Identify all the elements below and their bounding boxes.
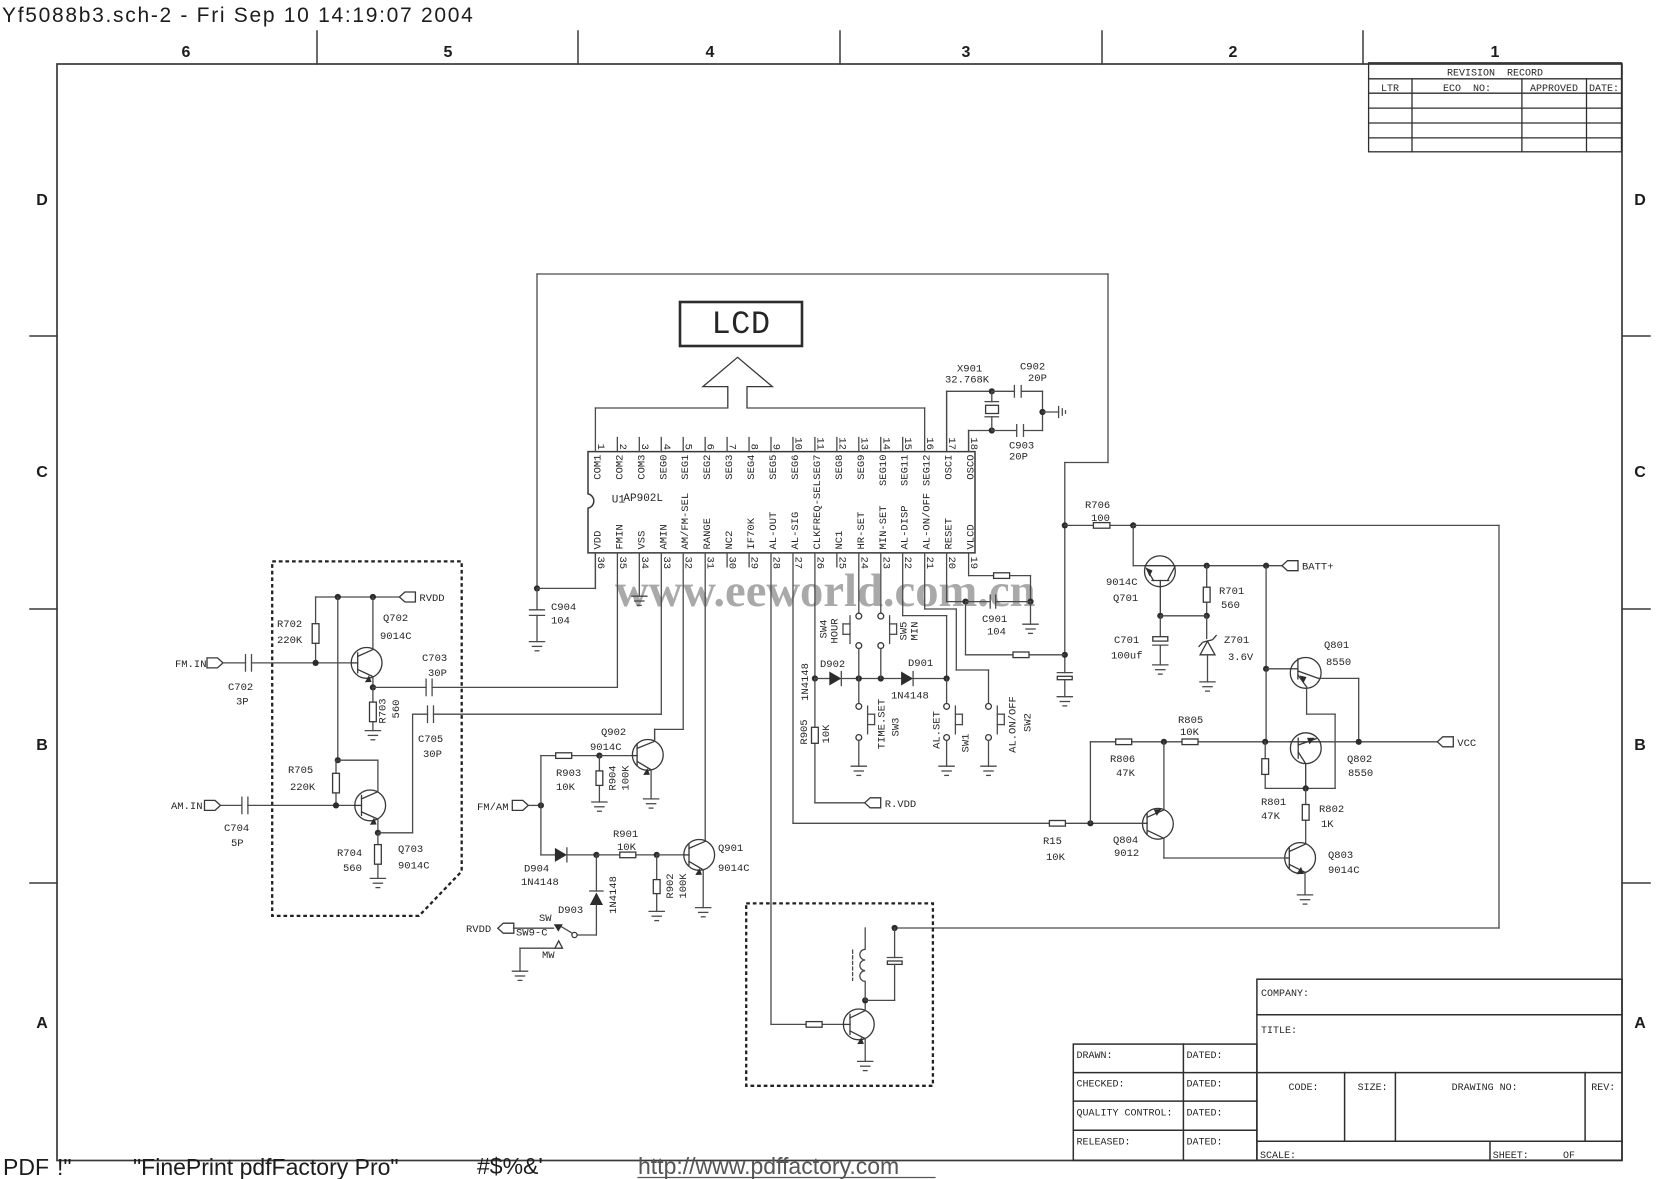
wire sw1 bottom <box>946 740 948 766</box>
capacitor C902 <box>1014 386 1021 398</box>
svg-text:2: 2 <box>1229 44 1238 61</box>
resistor R902 <box>653 880 660 894</box>
svg-text:R705: R705 <box>288 765 313 777</box>
U1 pin 17 (OSCI) <box>944 391 958 479</box>
resistor R706 <box>1093 523 1110 529</box>
wire R905 <box>815 679 865 803</box>
svg-text:1N4148: 1N4148 <box>800 663 812 701</box>
svg-text:5P: 5P <box>231 838 244 850</box>
svg-text:R701: R701 <box>1219 586 1244 598</box>
svg-text:Q803: Q803 <box>1328 850 1353 862</box>
svg-text:www.eeworld.com.cn: www.eeworld.com.cn <box>615 565 1036 617</box>
svg-text:9014C: 9014C <box>380 631 412 643</box>
U1 pin 5 (SEG1) <box>680 438 694 480</box>
U1 pin 19 (VLCD) <box>966 524 980 569</box>
LCD arrow <box>703 357 772 408</box>
svg-text:DATED:: DATED: <box>1187 1080 1223 1091</box>
wire Q701 to BATT+ <box>1175 565 1282 567</box>
svg-text:"FinePrint pdfFactory Pro": "FinePrint pdfFactory Pro" <box>133 1154 399 1179</box>
svg-text:SW: SW <box>539 913 552 925</box>
wire LCD bus to pins 1 and 16 <box>595 407 924 409</box>
U1 pin 10 (SEG6) <box>790 437 804 479</box>
wire Q804 collector down <box>1163 838 1165 858</box>
switch SW5 actuator <box>890 616 897 644</box>
svg-text:220K: 220K <box>290 782 316 794</box>
svg-text:C704: C704 <box>224 823 249 835</box>
svg-text:FM.IN: FM.IN <box>175 659 207 671</box>
svg-text:VCC: VCC <box>1457 738 1476 750</box>
capacitor C704 <box>242 797 248 813</box>
node Q801 base <box>1263 666 1269 672</box>
svg-text:9014C: 9014C <box>398 861 430 873</box>
U1 pin 34 (VSS) <box>636 531 650 570</box>
wire coil bottom <box>864 981 866 1000</box>
svg-text:SW9-C: SW9-C <box>516 928 548 940</box>
svg-text:100K: 100K <box>621 765 633 791</box>
svg-text:R801: R801 <box>1261 797 1286 809</box>
switch SW5 contact top <box>878 613 884 619</box>
port R.VDD <box>865 798 881 808</box>
U1 pin 25 (NC1) <box>834 531 848 570</box>
svg-text:TIME.SET: TIME.SET <box>877 699 889 749</box>
svg-text:VDD: VDD <box>592 531 604 550</box>
port RVDD bottom <box>498 923 514 933</box>
svg-text:C902: C902 <box>1020 362 1045 374</box>
switch SW5 contact bottom <box>878 643 884 649</box>
svg-text:SEG3: SEG3 <box>724 455 736 480</box>
wire AM.IN to C704 <box>221 804 242 806</box>
svg-text:SEG6: SEG6 <box>790 455 802 480</box>
wire batt node down to Q701 <box>1133 525 1144 565</box>
resistor R701 <box>1203 587 1210 602</box>
wire crystal to C902 <box>992 391 1043 430</box>
svg-text:16: 16 <box>923 437 935 450</box>
resistor osc base <box>806 1022 822 1028</box>
svg-text:SEG2: SEG2 <box>702 455 714 480</box>
svg-text:10K: 10K <box>1180 727 1200 739</box>
switch SW1 contact top <box>944 704 950 710</box>
svg-text:D903: D903 <box>558 905 583 917</box>
wire pin28 into osc base <box>771 1023 845 1025</box>
node batt rail corner <box>1130 522 1136 528</box>
wire Q801 emitter jog <box>1306 687 1335 789</box>
wire Q902 collector <box>654 729 656 741</box>
node C901 left <box>962 599 968 605</box>
svg-text:R902: R902 <box>665 873 677 898</box>
zener Z701 <box>1199 635 1217 682</box>
U1 pin 27 (AL-SIG) <box>790 512 804 569</box>
transistor Q804 <box>1143 808 1174 839</box>
crystal X901 <box>985 391 998 430</box>
svg-text:MIN: MIN <box>910 622 922 641</box>
switch SW2 contact bottom <box>986 735 992 741</box>
svg-text:COMPANY:: COMPANY: <box>1261 989 1309 1000</box>
node Q901 base <box>654 852 660 858</box>
U1 pin 14 (SEG10) <box>878 437 892 486</box>
transistor Q902 <box>632 740 663 776</box>
node diode bus left <box>812 675 818 681</box>
svg-text:1: 1 <box>594 444 606 450</box>
svg-text:AMIN: AMIN <box>658 524 670 549</box>
wire pin18 OSCO to crystal <box>969 431 992 452</box>
U1 pin 11 (SEG7) <box>812 437 826 479</box>
wire FM/AM up to R903 <box>541 756 600 806</box>
svg-text:AL-ON/OFF: AL-ON/OFF <box>922 493 934 550</box>
svg-text:C702: C702 <box>228 682 253 694</box>
wire Z701 top <box>1206 616 1208 639</box>
svg-text:12: 12 <box>835 437 847 450</box>
switch SW3 contact bottom <box>856 735 862 741</box>
svg-text:CLKFREQ-SEL: CLKFREQ-SEL <box>812 480 824 549</box>
svg-text:6: 6 <box>182 44 191 61</box>
svg-text:13: 13 <box>857 437 869 450</box>
wire Q902 emitter <box>650 770 652 799</box>
wire pin33 AMIN down <box>660 553 662 714</box>
svg-text:RANGE: RANGE <box>702 518 714 550</box>
svg-text:DATE:: DATE: <box>1589 84 1619 95</box>
svg-text:REVISION RECORD: REVISION RECORD <box>1447 69 1543 80</box>
wire Q803 emitter <box>1304 872 1306 895</box>
svg-text:1N4148: 1N4148 <box>521 877 559 889</box>
title block signoff table <box>1073 1044 1257 1160</box>
node R702 bottom <box>313 660 319 666</box>
capacitor C904 <box>530 588 545 641</box>
svg-text:RVDD: RVDD <box>419 593 444 605</box>
wire bias node <box>1160 615 1206 617</box>
resistor VLCD series <box>994 573 1010 579</box>
svg-text:D: D <box>1634 192 1646 209</box>
U1 pin 15 (SEG11) <box>900 437 914 486</box>
svg-text:R904: R904 <box>608 765 620 790</box>
U1 pin 24 (HR-SET) <box>856 512 870 569</box>
svg-text:R806: R806 <box>1110 754 1135 766</box>
svg-text:5: 5 <box>682 444 694 450</box>
ground R902 <box>649 911 664 920</box>
wire pin17 OSCI to crystal <box>947 391 992 451</box>
wire osc cap <box>865 928 894 1000</box>
U1 pin 29 (IF70K) <box>746 517 760 569</box>
svg-text:DATED:: DATED: <box>1187 1138 1223 1149</box>
wire pin20 RESET <box>947 553 966 602</box>
svg-text:Q801: Q801 <box>1324 640 1349 652</box>
ground R703 <box>365 731 380 740</box>
U1 pin 35 (FMIN) <box>614 524 628 569</box>
svg-text:Z701: Z701 <box>1224 635 1249 647</box>
switch SW9-C wiper pivot <box>572 932 577 937</box>
wire FM.IN to C702 <box>223 662 246 664</box>
wire C701 bottom <box>1159 646 1161 665</box>
revision record table <box>1369 63 1622 152</box>
svg-text:D902: D902 <box>820 659 845 671</box>
svg-text:SIZE:: SIZE: <box>1358 1083 1388 1094</box>
node sw1 tap <box>944 675 950 681</box>
svg-text:R703: R703 <box>378 698 390 723</box>
ground Q902 <box>644 799 659 808</box>
ground SW3 <box>851 766 866 775</box>
svg-text:32.768K: 32.768K <box>945 375 990 387</box>
LCD block <box>680 302 802 346</box>
transistor Q801 <box>1290 658 1321 689</box>
svg-text:1K: 1K <box>1321 819 1334 831</box>
ground osc <box>858 1061 873 1070</box>
svg-text:NC2: NC2 <box>724 531 736 550</box>
wire C701 top <box>1159 616 1161 637</box>
svg-text:B: B <box>1634 737 1646 754</box>
wire VCC row <box>1090 741 1437 743</box>
svg-text:9: 9 <box>770 444 782 450</box>
svg-text:47K: 47K <box>1116 768 1136 780</box>
wire sw3 top <box>858 679 860 704</box>
svg-text:FMIN: FMIN <box>614 524 626 549</box>
svg-text:30P: 30P <box>423 749 442 761</box>
svg-text:CODE:: CODE: <box>1289 1083 1319 1094</box>
ground R704 <box>370 878 385 887</box>
wire sw5 bottom <box>880 649 882 679</box>
resistor R705 <box>333 773 340 793</box>
switch SW9-C blade <box>554 924 573 933</box>
dashed block FM/AM amp <box>272 561 462 916</box>
capacitor C705 <box>428 706 434 722</box>
svg-text:RELEASED:: RELEASED: <box>1077 1138 1131 1149</box>
wire sw3 bottom <box>858 740 860 766</box>
svg-text:NC1: NC1 <box>834 531 846 550</box>
wire R15 node up to R806 <box>1089 742 1091 824</box>
ground R904 <box>592 802 607 811</box>
svg-text:A: A <box>36 1015 48 1032</box>
svg-text:PDF: PDF <box>3 1154 49 1179</box>
svg-text:FM/AM: FM/AM <box>477 802 509 814</box>
svg-text:B: B <box>36 737 48 754</box>
svg-text:SCALE:: SCALE: <box>1260 1151 1296 1162</box>
svg-text:9014C: 9014C <box>1328 865 1360 877</box>
svg-text:COM2: COM2 <box>614 455 626 480</box>
U1 pin 8 (SEG4) <box>746 438 760 480</box>
wire R904 <box>598 756 600 802</box>
U1 pin 28 (AL-OUT) <box>768 512 782 569</box>
svg-text:SEG4: SEG4 <box>746 455 758 480</box>
transistor osc Q <box>843 1009 874 1044</box>
transistor Q802 <box>1290 733 1321 789</box>
wire crystal to C903 <box>992 430 1043 432</box>
svg-text:560: 560 <box>391 700 403 719</box>
svg-text:4: 4 <box>706 44 715 61</box>
svg-text:3: 3 <box>638 444 650 450</box>
svg-text:COM3: COM3 <box>636 455 648 480</box>
svg-text:C904: C904 <box>551 602 576 614</box>
U1 pin 33 (AMIN) <box>658 524 672 569</box>
svg-text:ECO NO:: ECO NO: <box>1443 84 1491 95</box>
svg-text:3.6V: 3.6V <box>1228 652 1254 664</box>
wire pin29 IF70K stub <box>748 553 750 567</box>
wire AM out to C705 <box>378 714 428 833</box>
svg-text:RVDD: RVDD <box>466 924 491 936</box>
svg-text:AL-SIG: AL-SIG <box>790 512 802 550</box>
ground C904 <box>529 642 544 651</box>
wire pin23 MIN-SET down <box>880 553 882 613</box>
wire Q801 base <box>1266 668 1292 670</box>
ground Q901 <box>696 908 711 917</box>
ground C901 <box>1023 624 1038 633</box>
wire R802 <box>1305 788 1307 845</box>
switch SW3 actuator <box>868 706 875 734</box>
wire VDD rail loop <box>537 274 1108 673</box>
wire pin27 AL-SIG down <box>792 553 794 823</box>
wire osc emitter <box>864 1039 866 1062</box>
svg-text:AL.SET: AL.SET <box>932 711 944 749</box>
svg-text:D904: D904 <box>524 864 549 876</box>
wire Q703 emitter <box>377 819 379 833</box>
resistor R704 <box>375 845 382 865</box>
node sw3 tap <box>856 675 862 681</box>
wire battery rail right side <box>895 525 1499 928</box>
svg-text:APPROVED: APPROVED <box>1530 84 1578 95</box>
svg-text:4: 4 <box>660 444 672 450</box>
wire pin21 AL-ON/OFF jog <box>925 553 989 704</box>
wire Q902 base <box>599 755 637 757</box>
svg-text:5: 5 <box>444 44 453 61</box>
wire sw4 bottom <box>858 649 860 679</box>
switch SW4 actuator <box>843 616 850 644</box>
node R901 left <box>593 852 599 858</box>
svg-text:C901: C901 <box>982 614 1007 626</box>
wire sw1 top <box>946 679 948 704</box>
transistor Q901 <box>684 840 715 876</box>
resistor R903 <box>556 753 572 759</box>
svg-text:R702: R702 <box>277 619 302 631</box>
wire pin32 AM/FM-SEL down <box>655 553 684 742</box>
svg-text:SEG7: SEG7 <box>812 455 824 480</box>
svg-text:AP902L: AP902L <box>623 493 663 505</box>
svg-text:SEG12: SEG12 <box>922 455 934 487</box>
svg-text:R903: R903 <box>556 768 581 780</box>
U1 pin 26 (CLKFREQ-SEL) <box>812 480 826 569</box>
port FM.IN <box>207 658 223 668</box>
port RVDD top <box>399 592 415 602</box>
svg-text:10: 10 <box>791 437 803 450</box>
node FM/AM <box>538 802 544 808</box>
svg-text:Q901: Q901 <box>718 843 743 855</box>
inductor osc coil <box>853 949 866 981</box>
resistor R905 <box>812 727 819 743</box>
wire R902 <box>656 855 658 912</box>
svg-text:VLCD: VLCD <box>966 524 978 549</box>
svg-text:Q703: Q703 <box>398 844 423 856</box>
svg-text:1N4148: 1N4148 <box>891 691 929 703</box>
wire diode bus <box>815 678 947 680</box>
svg-text:9014C: 9014C <box>590 742 622 754</box>
node R705 top <box>335 757 341 763</box>
node rvdd r705 tap <box>335 594 341 600</box>
svg-text:100K: 100K <box>678 873 690 899</box>
wire RVDD rail <box>316 596 400 598</box>
diode D904 <box>555 848 567 862</box>
svg-text:SEG11: SEG11 <box>900 455 912 487</box>
svg-text:30: 30 <box>726 557 738 570</box>
svg-text:15: 15 <box>901 437 913 450</box>
transistor Q701 <box>1145 556 1176 616</box>
svg-text:SW2: SW2 <box>1023 713 1035 732</box>
svg-text:MW: MW <box>542 950 555 962</box>
U1 pin 6 (SEG2) <box>702 438 716 480</box>
resistor R805 <box>1182 739 1198 745</box>
wire batt+ down to Q801 base <box>1265 566 1267 669</box>
resistor R901 <box>620 852 636 858</box>
wire pin26 CLKFREQ down <box>814 553 816 679</box>
svg-text:TITLE:: TITLE: <box>1261 1026 1297 1037</box>
port VCC <box>1437 737 1453 747</box>
node osc tank <box>862 997 868 1003</box>
ground rail cap <box>1057 697 1072 706</box>
svg-text:20P: 20P <box>1009 452 1028 464</box>
U1 pin 21 (AL-ON/OFF) <box>922 493 936 569</box>
svg-text:7: 7 <box>726 444 738 450</box>
wire R706 left <box>1065 524 1094 526</box>
wire VDD to pin36 <box>537 553 595 589</box>
wire D903 to SW9 wiper <box>577 905 596 935</box>
switch SW1 actuator <box>955 706 962 734</box>
wire osc collector <box>864 1000 866 1010</box>
wire C704 to Q703 base <box>248 804 358 806</box>
svg-text:C701: C701 <box>1114 635 1139 647</box>
U1 pin 18 (OSCO) <box>966 431 980 480</box>
svg-text:2: 2 <box>616 444 628 450</box>
wire sw2 bottom <box>988 740 990 766</box>
svg-text:Q701: Q701 <box>1113 593 1138 605</box>
wire C901 gnd <box>1030 602 1032 625</box>
svg-text:9012: 9012 <box>1114 848 1139 860</box>
capacitor C701 <box>1153 637 1168 645</box>
svg-text:VSS: VSS <box>636 531 648 550</box>
resistor R702 <box>312 624 319 644</box>
svg-text:Q804: Q804 <box>1113 835 1138 847</box>
svg-text:1: 1 <box>1491 44 1500 61</box>
svg-text:3P: 3P <box>236 697 249 709</box>
svg-text:10K: 10K <box>821 724 833 744</box>
svg-text:100: 100 <box>1091 513 1110 525</box>
switch SW2 contact top <box>986 704 992 710</box>
U1 pin 36 (VDD) <box>592 531 606 570</box>
node R706 tap <box>1062 522 1068 528</box>
wire R901 <box>596 854 656 856</box>
U1 pin 22 (AL-DISP) <box>900 505 914 569</box>
node C901 right <box>1027 599 1033 605</box>
wire sw4 top <box>858 612 860 614</box>
wire D904 to R901 <box>567 854 597 856</box>
wire R801 <box>1265 742 1306 789</box>
ground SW2 <box>981 766 996 775</box>
svg-text:AM/FM-SEL: AM/FM-SEL <box>680 493 692 550</box>
svg-text:8550: 8550 <box>1326 657 1351 669</box>
svg-text:R901: R901 <box>613 829 638 841</box>
svg-text:C: C <box>36 464 48 481</box>
svg-text:!": !" <box>57 1154 72 1179</box>
svg-text:D901: D901 <box>908 658 933 670</box>
svg-text:560: 560 <box>343 863 362 875</box>
resistor VLCD rail series <box>1013 652 1029 658</box>
wire C901 left <box>966 601 991 603</box>
wire pin28 AL-OUT down <box>770 553 772 1025</box>
svg-text:104: 104 <box>551 616 570 628</box>
ground C701 <box>1153 665 1168 674</box>
node Q902 base <box>596 753 602 759</box>
svg-text:14: 14 <box>879 437 891 450</box>
resistor R703 <box>370 702 377 722</box>
U1 pin 9 (SEG5) <box>768 438 782 480</box>
resistor R806 <box>1116 739 1132 745</box>
svg-text:SEG9: SEG9 <box>856 455 868 480</box>
wire R703 <box>372 687 374 730</box>
resistor R802 <box>1302 805 1309 821</box>
